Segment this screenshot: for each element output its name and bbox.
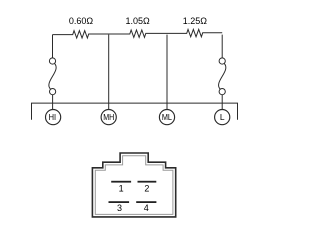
svg-text:1.25Ω: 1.25Ω bbox=[183, 16, 208, 26]
wire right drop to fuse F2 bbox=[221, 35, 223, 58]
terminal HI circle bbox=[46, 110, 61, 125]
thermal fuse F1 bottom circle bbox=[50, 89, 56, 95]
svg-text:L: L bbox=[220, 112, 225, 122]
svg-text:3: 3 bbox=[117, 203, 122, 213]
wire MH column bbox=[108, 35, 110, 110]
connector housing inner outline bbox=[95, 156, 173, 215]
svg-text:HI: HI bbox=[49, 113, 56, 123]
svg-text:ML: ML bbox=[162, 113, 173, 123]
thermal fuse F2 bottom circle bbox=[219, 89, 225, 95]
terminal L circle bbox=[215, 110, 230, 125]
wire L column bbox=[221, 95, 223, 110]
wire top rail with resistors bbox=[53, 29, 223, 38]
svg-text:0.60Ω: 0.60Ω bbox=[69, 16, 94, 26]
terminal ML circle bbox=[159, 110, 174, 125]
wire HI column bbox=[52, 95, 54, 110]
wire left drop to fuse F1 bbox=[52, 35, 54, 58]
svg-text:1: 1 bbox=[119, 183, 124, 193]
terminal MH circle bbox=[101, 110, 116, 125]
pin 1 bar bbox=[111, 181, 131, 183]
wire ML column bbox=[166, 35, 168, 110]
wire ground bus bracket bbox=[32, 103, 238, 120]
thermal fuse F1 body bbox=[49, 63, 56, 89]
pin 3 bar bbox=[109, 201, 130, 203]
connector housing outer outline bbox=[92, 153, 175, 217]
svg-text:4: 4 bbox=[144, 203, 149, 213]
pin 2 bar bbox=[138, 181, 157, 183]
svg-text:MH: MH bbox=[103, 113, 114, 123]
svg-text:2: 2 bbox=[144, 183, 149, 193]
svg-text:1.05Ω: 1.05Ω bbox=[125, 16, 150, 26]
pin 4 bar bbox=[136, 201, 156, 203]
thermal fuse F2 body bbox=[219, 63, 226, 89]
thermal fuse F2 top circle bbox=[219, 58, 225, 64]
thermal fuse F1 top circle bbox=[49, 58, 55, 64]
